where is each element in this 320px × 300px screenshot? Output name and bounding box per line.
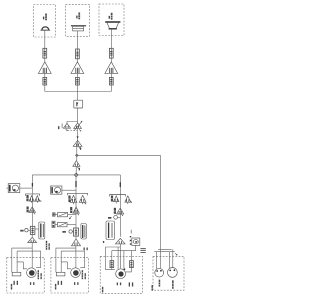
wire R2 to amp A2 [76,59,78,62]
resistor R9 [110,261,114,268]
wire bus to AGC U1 [77,92,79,101]
label Y102 (rotated) [55,284,56,290]
wire P3 down [135,245,137,250]
speaker LS2 [71,268,86,285]
wires into LS5 [169,249,172,268]
label right of T2 [84,248,88,251]
output amp A8 [28,237,37,242]
bus pair above Y104 [154,249,174,251]
wire R4 to bus [44,85,46,92]
driver amp A5 [73,140,82,149]
wire split B right [61,251,84,268]
speaker LS1 [27,268,42,285]
dashed speaker box Y101 [7,257,44,293]
wire A4 to A5 [77,128,79,146]
wire A8 down [31,234,33,268]
wire A2 to R5 [76,73,78,77]
wire P1 to channel A [20,187,33,189]
connector LS5 [168,268,178,289]
dashed enclosure box B3 [99,4,124,36]
wire split A left2 [17,251,27,272]
dashed connector box Y104 [153,256,184,290]
line amp A11 [117,208,124,216]
wire R3 to amp A3 [110,58,112,62]
coupling marks B [75,181,77,187]
terminal block X2 [56,272,65,285]
potentiometer RP1a [62,123,71,131]
wire channel C drop [119,175,121,195]
jack J3 label [108,217,111,219]
receiver B2 [71,25,86,31]
label B2 (rotated) [76,13,80,20]
wire P2 to channel B [62,189,76,191]
label A5 [80,147,81,150]
output amp A10 [72,239,81,246]
wire split B left2 [61,251,71,272]
resistor R8 [74,228,79,236]
wire R9 to LS3 [111,268,113,270]
wire R1 to amp A1 [44,58,46,62]
relay contact K1a [53,213,77,217]
wire split C left2 [111,251,113,261]
amp pair B [68,193,88,204]
terminal block X1 [12,272,21,285]
label left of T3 [103,241,104,243]
label A6 [79,168,80,171]
coupling marks C [32,182,120,187]
dashed enclosure box B2 [66,4,90,36]
wires into LS4 [157,249,161,269]
monitor unit P1 [6,184,19,193]
label 1A (pair C) [111,196,113,202]
wire split B left [56,248,76,272]
op-amp A1 (preamp) [38,62,51,74]
label 1A (pair B) [68,196,70,203]
label B3 (rotated) [109,13,113,20]
wire R6 to bus [110,85,112,92]
resistor R4 [43,77,47,85]
wire U1 to volume branch [77,108,79,123]
monitor unit P2 [51,186,62,194]
relay contact K1b [52,221,76,227]
dashed speaker box Y102 [51,257,88,293]
wire R10 to LS3 [126,268,132,272]
wire split C left [106,247,121,270]
feed wire to channel D [77,155,161,249]
dashed speaker box Y103 [100,256,142,293]
wire A12 down [119,244,121,268]
amp pair C [110,195,133,205]
main node J2 (diamond) [74,173,78,177]
wire R5 to bus [76,85,78,92]
monitor unit P3 [130,230,140,246]
resistor R3 [109,48,113,58]
wire A3 to R6 [110,73,112,77]
summing bus wire [45,91,112,93]
arrow mark [175,253,178,256]
resistor R2 [76,49,80,59]
distribution line [32,174,120,176]
AGC box U1 [74,100,83,108]
wire A1 to R4 [44,73,46,77]
resistor R5 [76,77,80,85]
label XS3 (rotated) [129,282,134,286]
label 1A (single C) [114,208,116,214]
label B1 (rotated) [43,14,47,21]
microphone B1 [41,26,51,30]
line amp A7 [29,207,36,215]
transformer T1 [35,222,45,239]
label Y101 (rotated) [11,284,12,290]
wire B1 to R1 [44,31,46,49]
wire A6 to main node [75,167,77,175]
op-amp A2 (preamp) [71,62,84,74]
speaker LS3 [116,268,126,285]
resistor R6 [109,77,113,85]
connector LS4 [155,268,164,286]
wire split A right [17,251,40,268]
wire A5 to junction [76,146,78,160]
wire B2 to R2 [76,31,78,49]
resistor R1 [43,48,47,58]
signal arrow [77,136,79,138]
wire A7 down [31,194,33,226]
label 1A (single A) [27,207,29,213]
resistor R10 [130,261,134,268]
jack J1 label [20,230,23,232]
resistor R7 [30,226,35,234]
output amp A12 [116,238,126,244]
wire A10 down [75,236,77,268]
wire split A left [12,248,32,272]
loudspeaker B3 [105,21,120,29]
wire split C right [112,251,136,269]
wire B3 to R3 [110,30,112,49]
driver amp A6 [73,161,80,169]
label right of T1 [46,241,50,250]
op-amp A3 (preamp) [105,62,118,74]
junction node J1 (diamond) [76,154,79,157]
wire A11 down [119,195,121,237]
transformer T3 [106,221,115,240]
wire channel A drop [31,175,33,194]
amp pair A [26,194,42,203]
jack J2 label [62,231,65,233]
label Y103 (rotated) [102,287,103,293]
label 1A (pair A) [26,195,28,201]
label Y104 (rotated) [152,285,153,291]
wire A9 down [75,193,77,228]
jack J3 [114,215,121,219]
label 1A (single B) [70,207,72,213]
branch wire to monitor pot [67,122,78,124]
line amp A9 [73,207,79,215]
jack J1 [25,229,31,232]
transformer T2 [81,224,86,240]
jack J2 [69,230,74,233]
ganged link (dashed) [68,130,77,132]
dashed enclosure box B1 [34,5,56,38]
wire channel B drop [75,175,77,193]
volume amp A4 [74,121,83,132]
terminal marks [140,248,145,253]
actuation arrow [69,216,72,219]
label RP1a (rotated) [58,126,59,129]
